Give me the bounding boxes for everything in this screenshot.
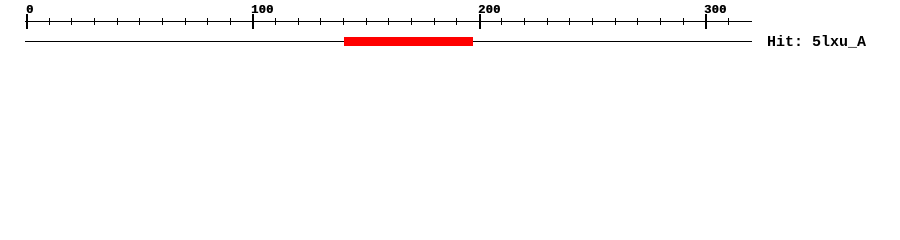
ruler minor tick 80: [207, 18, 208, 25]
ruler minor tick 280: [660, 18, 661, 25]
ruler axis line: [25, 21, 752, 22]
ruler minor tick 250: [592, 18, 593, 25]
ruler minor tick 110: [275, 18, 276, 25]
ruler minor tick 230: [547, 18, 548, 25]
ruler minor tick 70: [185, 18, 186, 25]
hit match bar (red): [344, 37, 473, 46]
ruler minor tick 160: [388, 18, 389, 25]
ruler minor tick 310: [728, 18, 729, 25]
ruler minor tick 30: [94, 18, 95, 25]
ruler minor tick 90: [230, 18, 231, 25]
ruler minor tick 270: [637, 18, 638, 25]
ruler label 100: [251, 4, 274, 16]
ruler minor tick 20: [71, 18, 72, 25]
ruler minor tick 120: [298, 18, 299, 25]
ruler minor tick 40: [117, 18, 118, 25]
ruler major tick 300: [705, 14, 707, 29]
ruler minor tick 210: [501, 18, 502, 25]
ruler minor tick 10: [49, 18, 50, 25]
ruler minor tick 240: [569, 18, 570, 25]
ruler minor tick 170: [411, 18, 412, 25]
ruler minor tick 180: [434, 18, 435, 25]
ruler minor tick 190: [456, 18, 457, 25]
ruler major tick 200: [479, 14, 481, 29]
ruler minor tick 290: [683, 18, 684, 25]
ruler major tick 0: [26, 14, 28, 29]
query sequence line: [25, 41, 752, 42]
ruler label 200: [478, 4, 501, 16]
ruler minor tick 150: [366, 18, 367, 25]
hit label text: [767, 35, 866, 50]
ruler label 0: [26, 4, 34, 16]
ruler label 300: [704, 4, 727, 16]
ruler minor tick 140: [343, 18, 344, 25]
ruler minor tick 50: [139, 18, 140, 25]
ruler major tick 100: [252, 14, 254, 29]
ruler minor tick 220: [524, 18, 525, 25]
ruler minor tick 130: [320, 18, 321, 25]
ruler minor tick 260: [615, 18, 616, 25]
ruler minor tick 60: [162, 18, 163, 25]
